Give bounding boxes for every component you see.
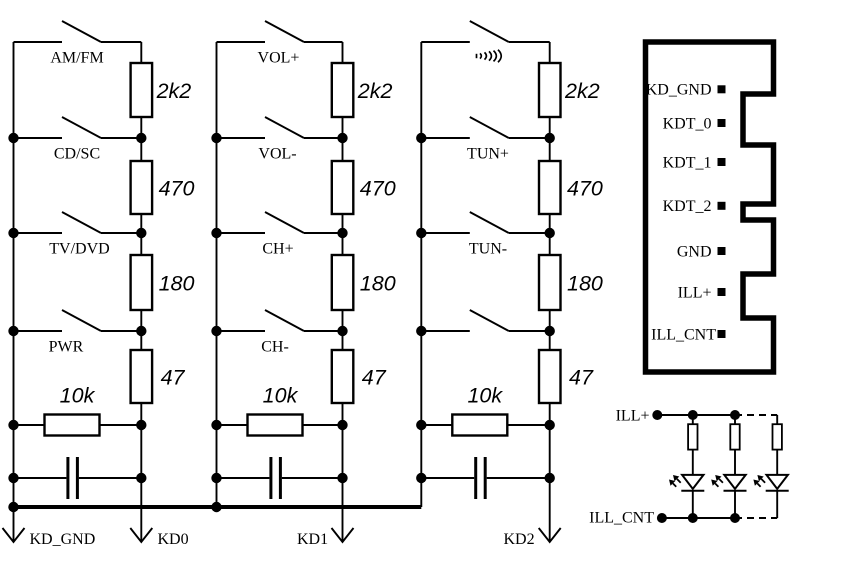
svg-text:470: 470 bbox=[567, 177, 603, 201]
junction: col3 left wire y=138 bbox=[416, 133, 426, 143]
svg-text:470: 470 bbox=[360, 177, 396, 201]
svg-text:ILL_CNT: ILL_CNT bbox=[589, 510, 654, 527]
junction: col1 left wire y=233 bbox=[8, 228, 18, 238]
switch S7 (CH+) row y=233 bbox=[217, 212, 343, 233]
resistor R6 value 2k2 bbox=[332, 63, 354, 117]
wire: column 1 left bus vertical bbox=[13, 42, 15, 507]
LED D3 emission arrows bbox=[757, 483, 760, 486]
wire + arrow: net KD0 bbox=[130, 478, 152, 542]
label for switch S9: sound/ATT wave icon bbox=[477, 50, 502, 62]
resistor R18 (LED ballast) bbox=[773, 424, 782, 449]
svg-text:TUN-: TUN- bbox=[469, 241, 507, 258]
node ILL+ terminal dot bbox=[652, 410, 662, 420]
svg-text:TUN+: TUN+ bbox=[467, 146, 509, 163]
junction: col2 chain y=331 bbox=[337, 326, 347, 336]
svg-text:47: 47 bbox=[362, 366, 387, 390]
svg-text:10k: 10k bbox=[60, 384, 96, 408]
junction: col2 chain y=138 bbox=[337, 133, 347, 143]
junction: bottom rail at branch D2 bbox=[730, 513, 740, 523]
resistor R7 value 470 bbox=[332, 161, 354, 214]
resistor R15 10k (horizontal) bbox=[421, 415, 549, 436]
resistor R11 value 2k2 bbox=[539, 63, 561, 117]
junction: col3 left wire y=478 bbox=[416, 473, 426, 483]
svg-text:KD1: KD1 bbox=[297, 531, 328, 548]
resistor R8 value 180 bbox=[332, 255, 354, 310]
connector pin KDT_0 (square pad) bbox=[718, 119, 726, 127]
node ILL_CNT terminal dot bbox=[657, 513, 667, 523]
switch S11 (TUN-) row y=233 bbox=[421, 212, 549, 233]
LED D1 bbox=[681, 475, 704, 491]
junction: col3 chain y=331 bbox=[545, 326, 555, 336]
junction: col1 chain y=331 bbox=[136, 326, 146, 336]
junction: col1 left wire y=478 bbox=[8, 473, 18, 483]
switch S4 (PWR) row y=331 bbox=[14, 310, 142, 331]
svg-text:VOL+: VOL+ bbox=[258, 50, 300, 67]
wire: ILL+ top rail dashed extension bbox=[735, 414, 777, 416]
switch S8 (CH-) row y=331 bbox=[217, 310, 343, 331]
resistor R3 value 180 bbox=[131, 255, 153, 310]
switch S2 (CD/SC) row y=138 bbox=[14, 117, 142, 138]
svg-text:47: 47 bbox=[161, 366, 186, 390]
junction: col3 left wire y=233 bbox=[416, 228, 426, 238]
connector pin ILL+ (square pad) bbox=[718, 288, 726, 296]
svg-text:47: 47 bbox=[569, 366, 594, 390]
svg-text:ILL_CNT: ILL_CNT bbox=[651, 326, 716, 343]
junction: bottom rail at branch D1 bbox=[688, 513, 698, 523]
LED D2 emission arrows bbox=[715, 483, 718, 486]
capacitor C2 bbox=[217, 457, 343, 499]
wire: column 2 resistor chain verticals bbox=[342, 42, 344, 478]
svg-text:KDT_1: KDT_1 bbox=[663, 154, 712, 171]
wire: ILL+ top rail (solid part) bbox=[657, 414, 735, 416]
junction: top rail at branch D2 bbox=[730, 410, 740, 420]
junction: col1 chain y=478 bbox=[136, 473, 146, 483]
switch S6 (VOL-) row y=138 bbox=[217, 117, 343, 138]
junction: col2 chain y=233 bbox=[337, 228, 347, 238]
wire: bottom KD_GND bus (thick) bbox=[13, 505, 422, 509]
LED D1 emission arrows bbox=[673, 483, 676, 486]
junction: col1 left wire y=138 bbox=[8, 133, 18, 143]
resistor R12 value 470 bbox=[539, 161, 561, 214]
LED D3 bbox=[766, 475, 789, 491]
connector J1 body outline bbox=[646, 42, 774, 372]
resistor R17 (LED ballast) bbox=[730, 424, 739, 449]
junction: col1 chain y=425 bbox=[136, 420, 146, 430]
junction: col3 left wire y=425 bbox=[416, 420, 426, 430]
svg-text:CD/SC: CD/SC bbox=[54, 146, 100, 163]
connector pin ILL_CNT (square pad) bbox=[718, 330, 726, 338]
LED D2 bbox=[724, 475, 747, 491]
svg-text:180: 180 bbox=[360, 272, 396, 296]
resistor R1 value 2k2 bbox=[131, 63, 153, 117]
wire: column 3 left bus vertical bbox=[420, 42, 422, 507]
junction: col2 chain y=478 bbox=[337, 473, 347, 483]
junction: col2 left wire y=425 bbox=[211, 420, 221, 430]
junction: col2 left wire y=233 bbox=[211, 228, 221, 238]
svg-text:2k2: 2k2 bbox=[156, 79, 192, 103]
junction: col1 left wire y=425 bbox=[8, 420, 18, 430]
wire: LED branch D1 vertical bbox=[692, 415, 694, 518]
junction: col1 chain y=138 bbox=[136, 133, 146, 143]
junction: col3 chain y=478 bbox=[545, 473, 555, 483]
svg-text:GND: GND bbox=[677, 243, 712, 260]
svg-text:CH+: CH+ bbox=[262, 241, 293, 258]
junction: col2 left wire y=331 bbox=[211, 326, 221, 336]
junction: col1 left wire y=331 bbox=[8, 326, 18, 336]
wire: column 1 resistor chain verticals bbox=[140, 42, 142, 478]
junction: col2 left wire y=507 bbox=[211, 502, 221, 512]
svg-text:ILL+: ILL+ bbox=[678, 284, 712, 301]
resistor R4 value 47 bbox=[131, 350, 153, 403]
junction: col2 left wire y=478 bbox=[211, 473, 221, 483]
wire: ILL_CNT bottom rail dashed extension bbox=[735, 517, 777, 519]
svg-text:KDT_2: KDT_2 bbox=[663, 198, 712, 215]
svg-text:AM/FM: AM/FM bbox=[50, 50, 103, 67]
svg-text:180: 180 bbox=[159, 272, 195, 296]
wire: column 2 left bus vertical bbox=[216, 42, 218, 507]
switch S12 row y=331 bbox=[421, 310, 549, 331]
connector pin KDT_2 (square pad) bbox=[718, 202, 726, 210]
resistor R14 value 47 bbox=[539, 350, 561, 403]
resistor R5 10k (horizontal) bbox=[14, 415, 142, 436]
junction: col2 chain y=425 bbox=[337, 420, 347, 430]
svg-text:2k2: 2k2 bbox=[564, 79, 600, 103]
svg-text:10k: 10k bbox=[467, 384, 503, 408]
switch S10 (TUN+) row y=138 bbox=[421, 117, 549, 138]
svg-text:KD_GND: KD_GND bbox=[646, 82, 712, 99]
svg-text:KD_GND: KD_GND bbox=[30, 531, 96, 548]
svg-text:VOL-: VOL- bbox=[258, 146, 296, 163]
svg-text:KD2: KD2 bbox=[504, 531, 535, 548]
junction: col3 chain y=233 bbox=[545, 228, 555, 238]
svg-text:KD0: KD0 bbox=[158, 531, 189, 548]
wire: column 3 resistor chain verticals bbox=[549, 42, 551, 478]
switch S9 row y=42 bbox=[421, 21, 549, 42]
svg-text:TV/DVD: TV/DVD bbox=[49, 241, 109, 258]
resistor R9 value 47 bbox=[332, 350, 354, 403]
junction: col1 left wire y=507 bbox=[8, 502, 18, 512]
wire + arrow: net KD_GND bbox=[3, 507, 25, 542]
svg-text:KDT_0: KDT_0 bbox=[663, 115, 712, 132]
connector pin KDT_1 (square pad) bbox=[718, 158, 726, 166]
svg-text:PWR: PWR bbox=[49, 339, 84, 356]
svg-text:2k2: 2k2 bbox=[357, 79, 393, 103]
switch S1 (AM/FM) row y=42 bbox=[14, 21, 142, 42]
connector pin KD_GND (square pad) bbox=[718, 85, 726, 93]
svg-text:180: 180 bbox=[567, 272, 603, 296]
svg-text:470: 470 bbox=[159, 177, 195, 201]
connector pin GND (square pad) bbox=[718, 247, 726, 255]
resistor R13 value 180 bbox=[539, 255, 561, 310]
junction: col3 chain y=138 bbox=[545, 133, 555, 143]
junction: col3 chain y=425 bbox=[545, 420, 555, 430]
resistor R16 (LED ballast) bbox=[688, 424, 697, 449]
wire: LED branch D3 vertical bbox=[776, 415, 778, 518]
wire + arrow: net KD1 bbox=[332, 478, 354, 542]
capacitor C1 bbox=[14, 457, 142, 499]
junction: col2 left wire y=138 bbox=[211, 133, 221, 143]
wire: ILL_CNT bottom rail (solid part) bbox=[662, 517, 735, 519]
wire + arrow: net KD2 bbox=[539, 478, 561, 542]
resistor R2 value 470 bbox=[131, 161, 153, 214]
junction: col3 left wire y=331 bbox=[416, 326, 426, 336]
resistor R10 10k (horizontal) bbox=[217, 415, 343, 436]
capacitor C3 bbox=[421, 457, 549, 499]
switch S5 (VOL+) row y=42 bbox=[217, 21, 343, 42]
svg-text:CH-: CH- bbox=[261, 339, 289, 356]
svg-text:10k: 10k bbox=[263, 384, 299, 408]
junction: top rail at branch D1 bbox=[688, 410, 698, 420]
junction: col1 chain y=233 bbox=[136, 228, 146, 238]
svg-text:ILL+: ILL+ bbox=[616, 408, 650, 425]
switch S3 (TV/DVD) row y=233 bbox=[14, 212, 142, 233]
wire: LED branch D2 vertical bbox=[734, 415, 736, 518]
